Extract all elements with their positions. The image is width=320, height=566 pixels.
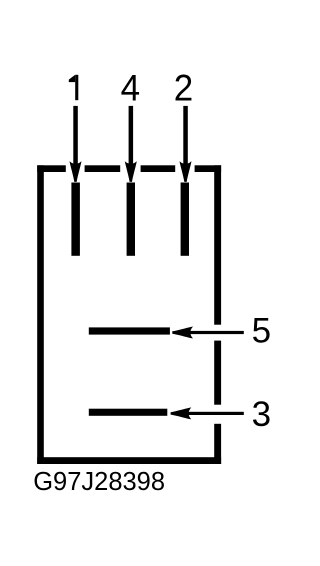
arrow to pin 4: shaft [129, 106, 134, 166]
connector body outline: top edge dash segment 2 [85, 165, 121, 172]
svg-text:2: 2 [174, 66, 193, 108]
svg-text:3: 3 [252, 395, 271, 434]
arrow to pin 2: shaft [183, 106, 188, 166]
connector body outline: top edge dash segment 4 [195, 165, 222, 172]
connector body outline: right edge segment 2 [214, 341, 221, 405]
connector body outline: bottom edge [37, 457, 221, 464]
terminal pin 2 [181, 183, 189, 256]
svg-text:4: 4 [121, 66, 140, 108]
connector body outline: left edge [37, 165, 44, 464]
arrow to pin 3: shaft [183, 412, 244, 415]
connector body outline: top edge dash segment 1 [37, 165, 66, 172]
terminal pin 5 [89, 327, 170, 334]
arrow to pin 5: head [172, 327, 193, 339]
terminal pin 3 [89, 409, 168, 416]
arrow to pin 5: shaft [184, 331, 244, 334]
arrow to pin 1: head [70, 161, 82, 182]
terminal pin 4 [127, 183, 135, 256]
label 1 (custom glyph) [69, 75, 78, 100]
connector body outline: right edge segment 3 [214, 424, 221, 464]
connector body outline: top edge dash segment 3 [141, 165, 176, 172]
svg-text:G97J28398: G97J28398 [33, 468, 165, 496]
arrow to pin 4: head [125, 161, 137, 182]
connector body outline: right edge segment 1 [214, 165, 221, 324]
arrow to pin 3: head [171, 408, 192, 420]
svg-text:5: 5 [252, 311, 271, 350]
arrow to pin 1: shaft [73, 106, 78, 166]
arrow to pin 2: head [180, 161, 192, 182]
terminal pin 1 [71, 183, 80, 256]
